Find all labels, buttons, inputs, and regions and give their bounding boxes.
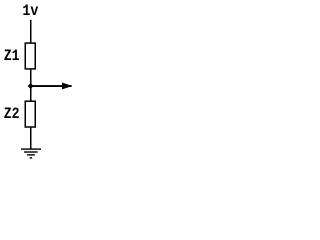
arrowhead [62, 83, 72, 90]
wire Z1 bottom to node and on to Z2 [30, 69, 32, 102]
output arrow shaft [31, 85, 72, 87]
resistor Z1 [25, 43, 35, 69]
ground bar 3 [27, 154, 35, 155]
ground bar 4 [30, 157, 33, 158]
svg-text:Z2: Z2 [4, 105, 20, 123]
wire Z2 bottom to ground [30, 127, 32, 149]
ground bar 1 [21, 148, 41, 149]
ground bar 2 [24, 151, 37, 152]
wire from 1v to Z1 top [30, 20, 32, 44]
junction dot node [28, 83, 34, 89]
resistor Z2 [25, 101, 35, 127]
svg-text:1v: 1v [22, 2, 38, 20]
svg-text:Z1: Z1 [4, 47, 20, 65]
